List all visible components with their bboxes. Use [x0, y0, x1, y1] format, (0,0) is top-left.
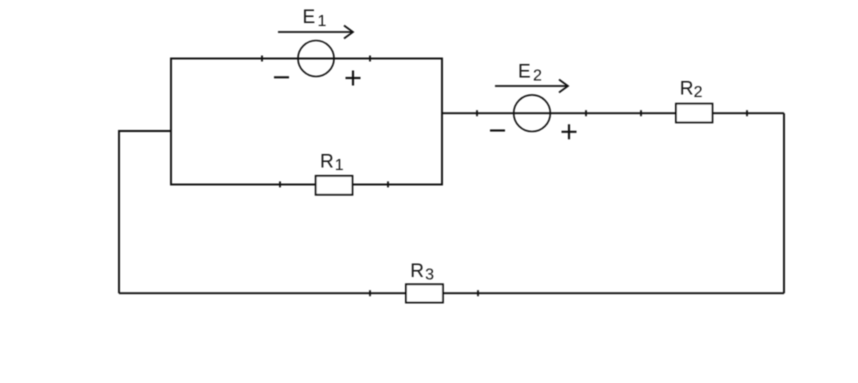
svg-text:1: 1: [318, 13, 327, 30]
svg-text:R: R: [320, 151, 334, 172]
svg-text:1: 1: [335, 157, 344, 174]
svg-text:R: R: [680, 79, 694, 100]
svg-text:E: E: [303, 7, 316, 28]
svg-text:3: 3: [425, 267, 434, 284]
svg-text:E: E: [518, 61, 531, 82]
svg-text:R: R: [410, 261, 424, 282]
svg-text:2: 2: [694, 84, 703, 101]
svg-text:2: 2: [533, 67, 542, 84]
